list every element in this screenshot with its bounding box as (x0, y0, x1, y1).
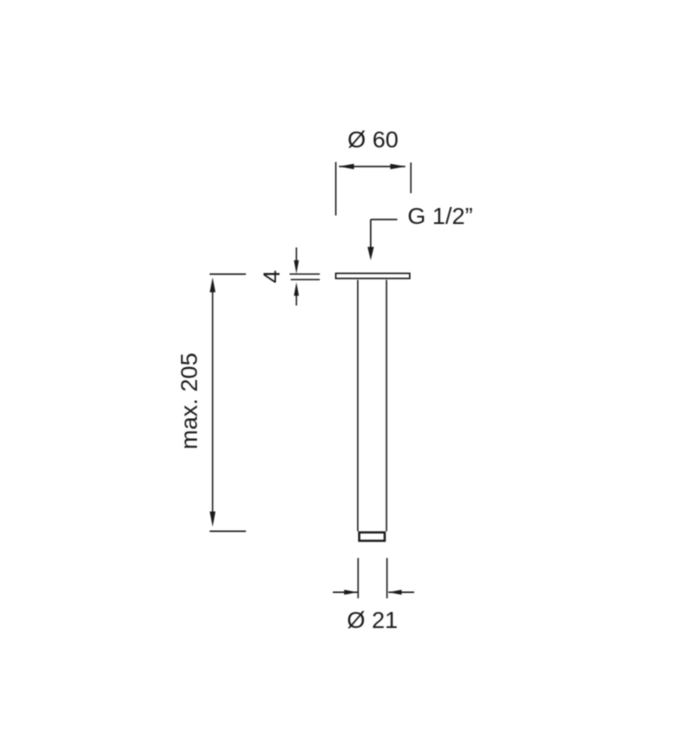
svg-text:Ø 60: Ø 60 (348, 127, 399, 153)
svg-text:max. 205: max. 205 (176, 353, 202, 450)
svg-text:Ø 21: Ø 21 (347, 607, 398, 633)
svg-text:4: 4 (259, 270, 285, 283)
svg-text:G 1/2”: G 1/2” (408, 203, 473, 229)
